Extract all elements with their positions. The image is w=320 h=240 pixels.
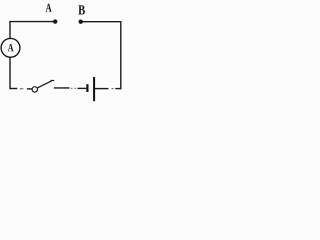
label B (terminal) [78,5,85,14]
node A [53,19,57,23]
wire bottom-left (corner to switch, with dash) [10,88,17,90]
ammeter A1 circle [1,38,20,57]
label A (terminal) [46,4,52,12]
battery negative plate (short) [86,84,88,92]
wire top horizontal (corner to node A) [9,21,53,23]
wire left vertical (ammeter to bottom-left corner) [9,57,11,89]
battery positive plate (long) [93,77,95,101]
switch S1 lever [37,81,52,88]
wire right vertical [120,22,122,90]
wire top-right horizontal (node B to top-right corner) [81,21,122,23]
wire bottom-right (corner to battery, dash-dot) [115,88,121,90]
ammeter A1 letter [8,44,14,51]
wire battery to switch (dash-dot) [78,87,87,89]
node B [79,20,83,24]
wire top-left vertical (ammeter to top-left corner) [9,22,11,39]
switch S1 lever tip [51,80,55,82]
switch S1 pivot circle [32,87,37,92]
